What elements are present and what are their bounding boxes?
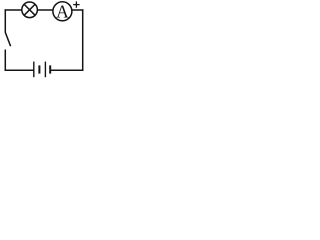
wire bottom right (50, 69, 83, 71)
battery B1 (34, 62, 50, 78)
wire top-left horizontal (5, 9, 22, 11)
switch S1 blade (5, 32, 10, 46)
wire bottom left (5, 69, 35, 71)
plus terminal label (73, 1, 79, 7)
wire lamp to ammeter (37, 9, 53, 11)
wire left lower vertical (4, 50, 6, 72)
ammeter A1 (53, 2, 72, 21)
svg-text:A: A (56, 1, 69, 21)
lamp L1 (22, 2, 38, 18)
wire left upper vertical (4, 9, 6, 32)
wire ammeter to right corner (72, 9, 84, 11)
wire right vertical (82, 9, 84, 71)
